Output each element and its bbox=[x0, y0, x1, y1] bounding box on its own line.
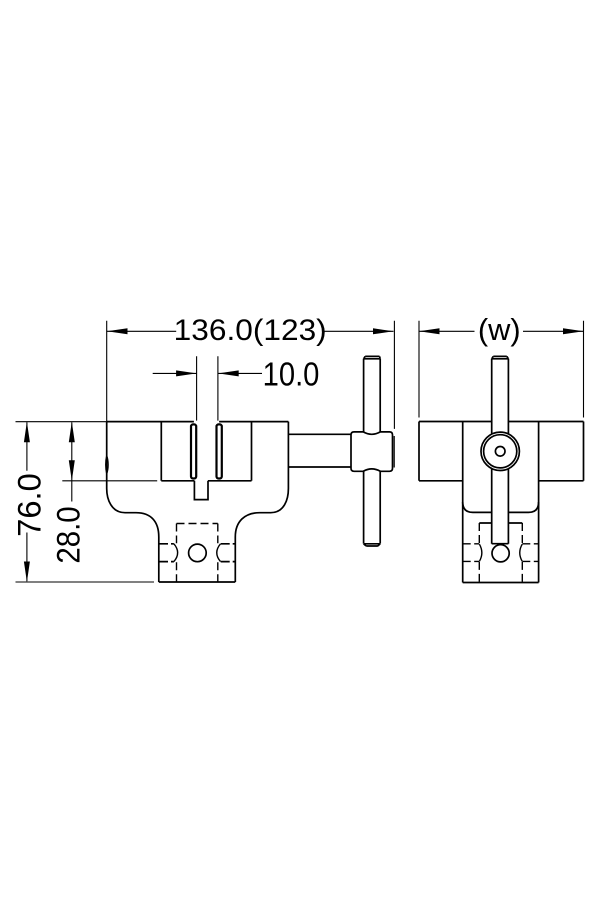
svg-text:28.0: 28.0 bbox=[50, 506, 86, 563]
svg-text:136.0(123): 136.0(123) bbox=[174, 313, 327, 347]
svg-text:10.0: 10.0 bbox=[263, 356, 320, 393]
svg-text:(w): (w) bbox=[478, 313, 521, 347]
svg-text:76.0: 76.0 bbox=[12, 473, 48, 537]
